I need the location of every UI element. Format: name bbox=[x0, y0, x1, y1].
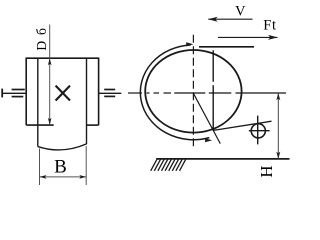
arrowhead D6 top bbox=[48, 58, 52, 65]
ground line bbox=[156, 158, 289, 160]
pulley circle (front view) bbox=[145, 50, 241, 133]
extension line B left bbox=[39, 149, 41, 186]
belt bottom curve (side view) bbox=[38, 144, 87, 150]
belt lower run line to small pulley bbox=[213, 121, 271, 130]
arrowhead B left bbox=[40, 175, 47, 179]
horizontal dash-dot centerline through pulley bbox=[128, 92, 286, 94]
ground hatching bbox=[151, 159, 186, 171]
shaft break mark upper-right bbox=[104, 89, 115, 91]
svg-text:B: B bbox=[54, 156, 67, 177]
vertical dashed centerline of pulley bbox=[192, 35, 194, 150]
belt arc arrowhead bottom bbox=[205, 138, 212, 142]
force arrow Ft bbox=[218, 36, 277, 38]
shaft break mark lower-left bbox=[12, 96, 24, 98]
arrowhead H top bbox=[276, 93, 280, 100]
shaft end bar (left) bbox=[1, 89, 3, 98]
small pulley horizontal crosshair bbox=[249, 130, 270, 132]
arrowhead D6 bottom bbox=[48, 118, 52, 125]
shaft break mark lower-right bbox=[104, 95, 115, 97]
vertical chord line through tangent point bbox=[212, 50, 214, 82]
svg-text:V: V bbox=[235, 4, 246, 20]
extension line B right bbox=[85, 146, 87, 185]
velocity arrow V bbox=[208, 18, 252, 20]
pulley body rectangle (side view) bbox=[26, 58, 99, 126]
X mark on shaft axis bbox=[56, 86, 70, 101]
belt top run tangent line bbox=[199, 46, 254, 48]
radius line from center to belt tangent point bbox=[193, 93, 220, 143]
dimension line B bbox=[40, 176, 87, 178]
belt arc around pulley bbox=[140, 45, 209, 140]
pulley rim line left / belt side left bbox=[37, 58, 39, 146]
arrowhead H bottom bbox=[276, 152, 280, 159]
small pulley axis circle bbox=[251, 124, 265, 138]
arrowhead B right bbox=[79, 175, 86, 179]
wire: shaft centerline right segment bbox=[99, 92, 122, 94]
svg-text:Ft: Ft bbox=[263, 18, 277, 34]
small pulley vertical crosshair bbox=[257, 116, 259, 145]
wire: shaft centerline left segment bbox=[2, 92, 26, 94]
shaft break mark upper-left bbox=[12, 89, 25, 91]
pulley rim line right / belt side right bbox=[86, 58, 88, 144]
belt arc arrowhead top bbox=[186, 42, 193, 46]
svg-text:H: H bbox=[257, 165, 276, 177]
dimension line D6 (vertical) bbox=[49, 25, 51, 125]
dimension line H bbox=[277, 93, 279, 159]
